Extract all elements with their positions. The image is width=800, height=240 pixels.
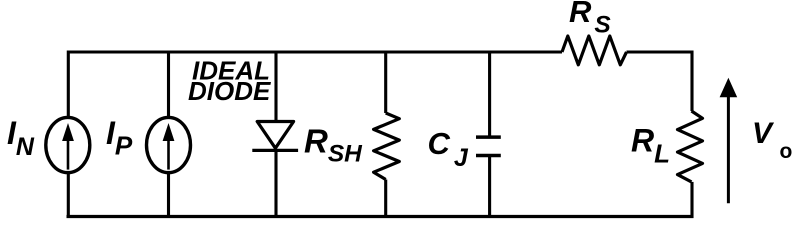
svg-text:RL: RL xyxy=(631,122,670,168)
svg-text:CJ: CJ xyxy=(428,126,469,172)
wire C_J branch upper xyxy=(488,51,491,138)
current source I_N arrow xyxy=(67,138,70,170)
resistor R_SH zigzag xyxy=(374,113,400,180)
capacitor C_J bottom plate xyxy=(476,154,501,158)
svg-text:IP: IP xyxy=(106,115,133,161)
wire bottom horizontal xyxy=(67,215,694,218)
svg-text:RS: RS xyxy=(569,0,611,38)
wire C_J branch lower xyxy=(488,156,491,219)
wire right vertical upper xyxy=(690,51,693,112)
svg-text:DIODE: DIODE xyxy=(188,76,271,106)
wire left vertical upper xyxy=(67,51,70,118)
current source I_N circle xyxy=(46,117,90,172)
wire left vertical lower xyxy=(67,173,70,218)
current source I_P circle xyxy=(147,117,191,172)
diode D1 cathode bar xyxy=(252,149,298,152)
V_o arrow xyxy=(727,95,730,203)
wire top horizontal right segment xyxy=(627,50,693,53)
wire I_P branch lower xyxy=(167,173,170,218)
resistor R_S zigzag xyxy=(562,36,627,65)
wire R_SH branch upper xyxy=(384,51,387,114)
capacitor C_J top plate xyxy=(476,135,501,139)
svg-text:IN: IN xyxy=(7,115,35,161)
current source I_P arrow xyxy=(167,138,170,170)
wire top horizontal left segment xyxy=(68,50,562,53)
wire right vertical lower xyxy=(690,182,693,218)
diode D1 triangle xyxy=(257,122,293,149)
wire diode branch upper xyxy=(274,51,277,123)
wire R_SH branch lower xyxy=(384,180,387,219)
resistor R_L zigzag xyxy=(678,111,703,182)
wire I_P branch upper xyxy=(167,51,170,118)
svg-text:Vo: Vo xyxy=(752,117,792,163)
wire diode branch lower xyxy=(274,150,277,218)
svg-text:RSH: RSH xyxy=(304,123,363,168)
